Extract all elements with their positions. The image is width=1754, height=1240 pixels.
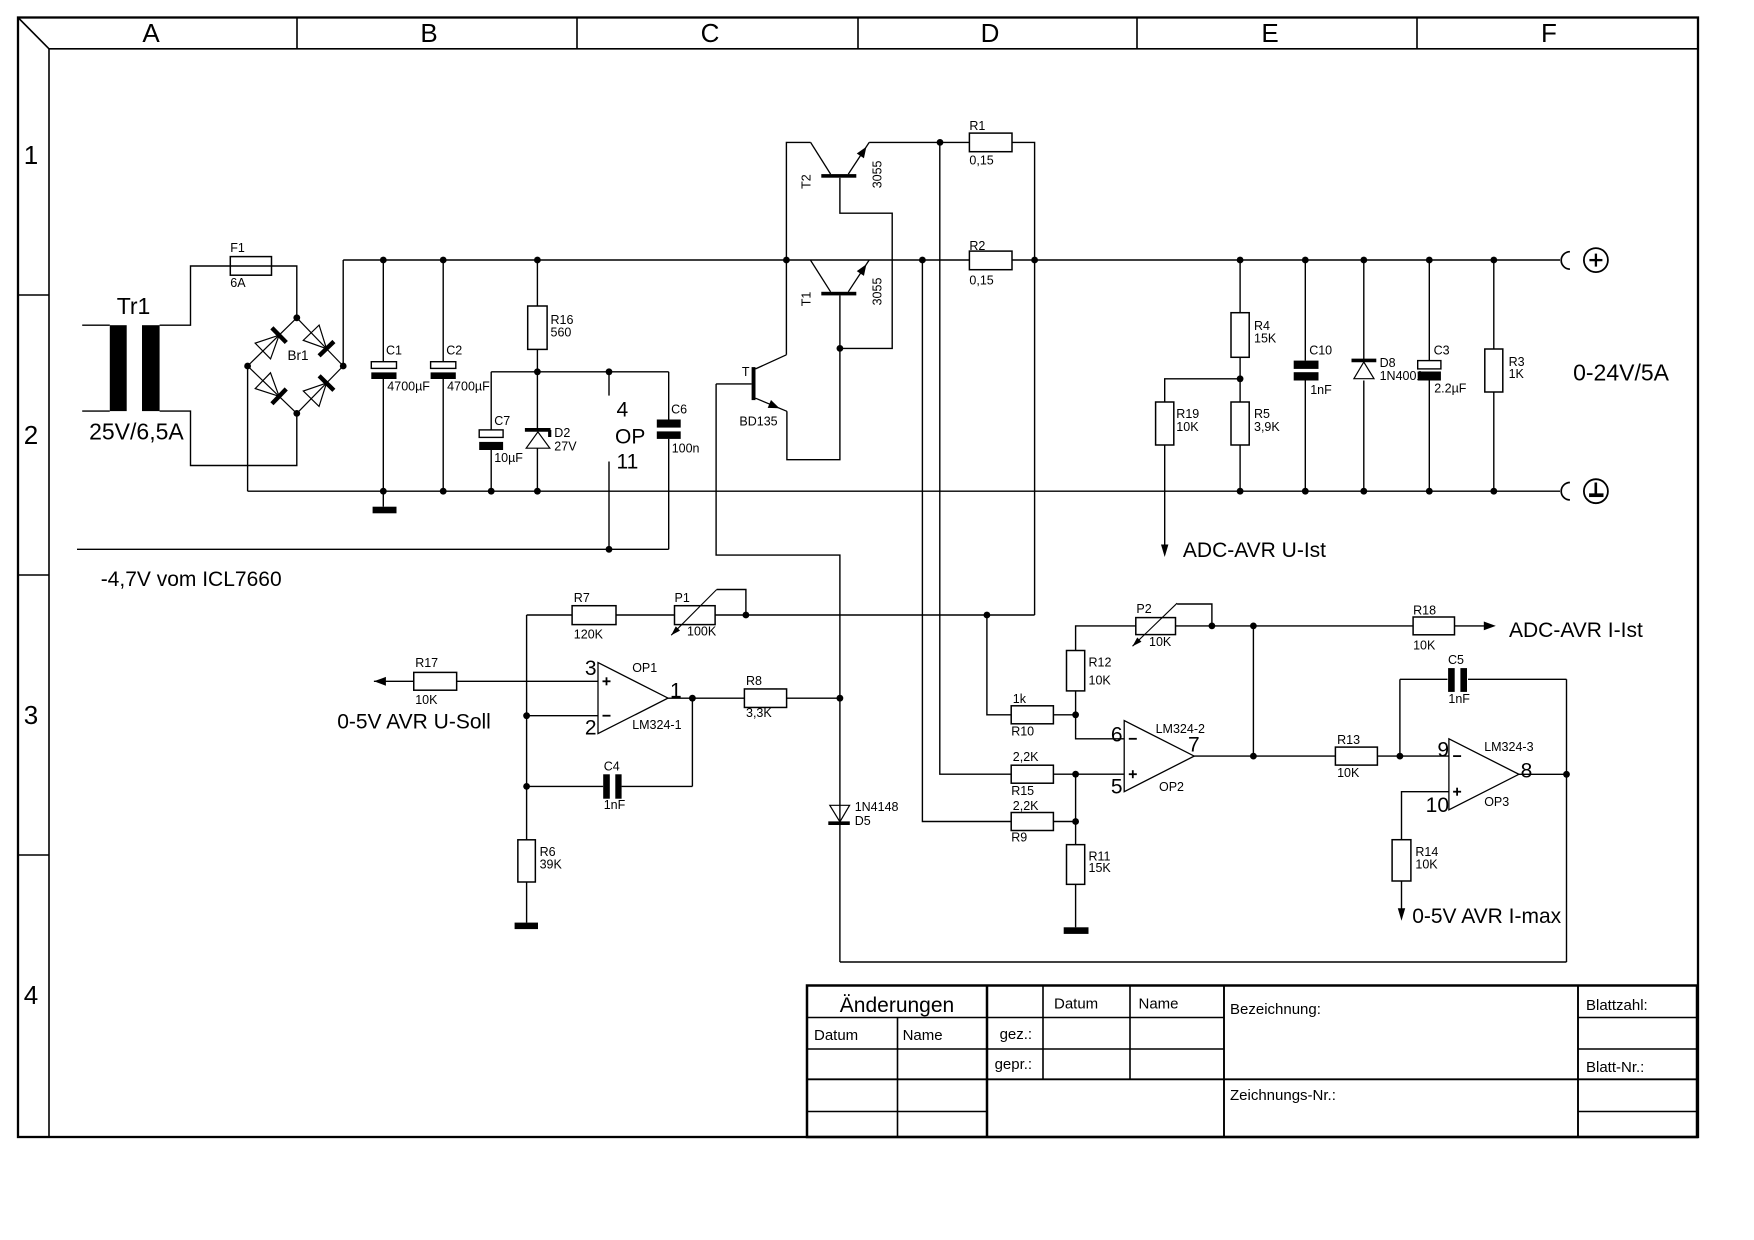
- net label 0-24V/5A: [1573, 359, 1670, 385]
- svg-text:C2: C2: [446, 343, 462, 357]
- svg-text:25V/6,5A: 25V/6,5A: [89, 418, 184, 444]
- wire: R1 to output node: [1012, 142, 1035, 615]
- svg-text:15K: 15K: [1254, 332, 1277, 346]
- svg-text:27V: 27V: [554, 440, 577, 454]
- resistor R11 15K: [1067, 845, 1112, 928]
- svg-text:10K: 10K: [415, 693, 438, 707]
- svg-text:1nF: 1nF: [1448, 692, 1470, 706]
- svg-text:-4,7V vom ICL7660: -4,7V vom ICL7660: [101, 568, 282, 591]
- wire: base node to BD135 emitter: [787, 348, 840, 459]
- svg-text:100n: 100n: [672, 442, 700, 456]
- svg-text:6A: 6A: [230, 276, 246, 290]
- zener diode D2 27V: [525, 372, 577, 491]
- wire: OP2 plus divider chain: [1075, 774, 1077, 844]
- op-amp OP3 LM324-3: [1426, 739, 1534, 818]
- svg-text:39K: 39K: [540, 858, 563, 872]
- svg-text:R17: R17: [415, 656, 438, 670]
- svg-text:T1: T1: [800, 292, 814, 307]
- svg-text:9: 9: [1437, 739, 1449, 762]
- capacitor C3 2.2uF: [1418, 260, 1467, 491]
- wire: fuse to bridge top node: [272, 266, 297, 318]
- wire: OP1 output: [668, 695, 744, 702]
- wire: R8 to D5 node: [787, 695, 844, 702]
- svg-text:10K: 10K: [1089, 674, 1112, 688]
- wire: U-Soll feedback line: [527, 612, 1035, 619]
- svg-text:15K: 15K: [1089, 861, 1112, 875]
- svg-text:D8: D8: [1380, 356, 1396, 370]
- resistor R4 15K: [1231, 260, 1277, 382]
- svg-text:R10: R10: [1011, 725, 1034, 739]
- wire: primary leads: [82, 325, 110, 411]
- svg-text:2.2µF: 2.2µF: [1434, 382, 1467, 396]
- wire: BD135 base to OP1 output node: [716, 384, 840, 698]
- svg-text:1nF: 1nF: [604, 798, 626, 812]
- capacitor C10 1nF: [1294, 260, 1332, 491]
- wire: OP3 output loop (bottom): [840, 679, 1567, 962]
- wire: -4,7V rail: [77, 546, 669, 591]
- svg-text:1N4148: 1N4148: [855, 800, 899, 814]
- resistor R16 560: [528, 260, 574, 372]
- svg-text:10: 10: [1426, 794, 1449, 817]
- wire: current sense tap (output side): [922, 260, 1011, 822]
- wire: ADC-AVR I-Ist arrow: [1455, 619, 1643, 642]
- svg-text:1K: 1K: [1509, 367, 1525, 381]
- resistor R8 3,3K: [744, 674, 786, 720]
- svg-text:4: 4: [24, 980, 38, 1010]
- svg-text:560: 560: [551, 326, 572, 340]
- svg-text:3,9K: 3,9K: [1254, 420, 1280, 434]
- svg-text:R9: R9: [1011, 830, 1027, 844]
- wire: U-Soll input arrow: [337, 677, 491, 734]
- capacitor C7 10uF: [479, 372, 523, 491]
- svg-text:OP: OP: [615, 425, 645, 448]
- svg-text:OP2: OP2: [1159, 780, 1184, 794]
- svg-text:Bezeichnung:: Bezeichnung:: [1230, 1001, 1321, 1018]
- resistor R14 10K: [1392, 840, 1438, 909]
- svg-text:1nF: 1nF: [1310, 383, 1332, 397]
- svg-text:0-24V/5A: 0-24V/5A: [1573, 359, 1670, 385]
- resistor R17 10K: [414, 656, 457, 707]
- svg-text:R12: R12: [1089, 656, 1112, 670]
- wire: T2 collector to rail: [786, 142, 810, 354]
- svg-text:2,2K: 2,2K: [1013, 799, 1039, 813]
- svg-text:gez.:: gez.:: [1000, 1026, 1033, 1043]
- svg-text:R1: R1: [969, 119, 985, 133]
- svg-text:7: 7: [1188, 734, 1200, 757]
- svg-text:1k: 1k: [1013, 692, 1027, 706]
- svg-text:10K: 10K: [1337, 766, 1360, 780]
- svg-text:Blattzahl:: Blattzahl:: [1586, 997, 1648, 1014]
- resistor R9 2,2K: [1011, 799, 1079, 845]
- svg-text:Änderungen: Änderungen: [840, 994, 954, 1017]
- resistor R10 1k: [987, 615, 1079, 739]
- svg-text:Datum: Datum: [1054, 996, 1098, 1013]
- wire: R10/R12 node to OP2 pin 6: [1076, 715, 1125, 739]
- svg-text:2: 2: [585, 717, 597, 740]
- resistor R18 10K: [1413, 603, 1454, 652]
- svg-text:10K: 10K: [1415, 857, 1438, 871]
- wire: secondary top to fuse: [160, 266, 231, 325]
- resistor R6 39K: [518, 840, 563, 923]
- svg-text:C5: C5: [1448, 653, 1464, 667]
- svg-text:Br1: Br1: [288, 348, 309, 363]
- svg-text:2: 2: [24, 420, 38, 450]
- svg-text:1: 1: [24, 140, 38, 170]
- svg-text:1N4001: 1N4001: [1380, 369, 1424, 383]
- svg-text:Zeichnungs-Nr.:: Zeichnungs-Nr.:: [1230, 1087, 1336, 1104]
- ground (below R11): [1064, 927, 1089, 934]
- svg-text:LM324-2: LM324-2: [1156, 722, 1205, 736]
- resistor R19 10K: [1156, 379, 1241, 546]
- wire: aux supply node (R16 bottom): [491, 368, 669, 375]
- svg-text:3055: 3055: [870, 160, 884, 188]
- transistor T2 (2N3055): [800, 142, 885, 189]
- svg-text:0,15: 0,15: [969, 154, 993, 168]
- ground (below R6): [515, 923, 538, 930]
- svg-text:C10: C10: [1309, 344, 1332, 358]
- transistor T1 (2N3055): [800, 260, 885, 306]
- wire: ADC-AVR U-Ist arrow: [1161, 539, 1326, 562]
- wire: current sense tap (emitter side): [940, 142, 1011, 774]
- op-amp OP1 LM324-1: [585, 657, 682, 740]
- transformer Tr1: [89, 293, 184, 445]
- fuse F1 6A: [230, 241, 271, 290]
- capacitor C2 4700uF: [431, 260, 491, 491]
- capacitor C5 1nF: [1400, 653, 1567, 756]
- resistor R13 10K: [1335, 733, 1377, 780]
- svg-text:4: 4: [617, 399, 629, 422]
- svg-text:10K: 10K: [1149, 635, 1172, 649]
- wire: bridge minus to ground rail: [247, 366, 249, 491]
- svg-text:3,3K: 3,3K: [746, 706, 772, 720]
- svg-text:D5: D5: [855, 814, 871, 828]
- diode D8 1N4001: [1352, 260, 1424, 491]
- svg-text:D2: D2: [554, 426, 570, 440]
- svg-text:1: 1: [670, 680, 682, 703]
- diode D5 1N4148: [828, 698, 898, 962]
- svg-text:BD135: BD135: [739, 415, 777, 429]
- svg-text:C: C: [701, 18, 720, 48]
- op-amp power pins 4/11: [609, 372, 645, 550]
- capacitor C1 4700uF: [371, 260, 430, 491]
- wire: P2 node to R18/OP2: [1212, 623, 1413, 757]
- output terminal ground: [1561, 479, 1608, 503]
- wire: OP1 pin 2: [527, 715, 598, 717]
- svg-text:C3: C3: [1434, 344, 1450, 358]
- resistor R1 0,15: [969, 119, 1012, 168]
- wire: bridge plus to +raw rail: [342, 260, 344, 366]
- svg-text:ADC-AVR I-Ist: ADC-AVR I-Ist: [1509, 619, 1643, 642]
- svg-text:3: 3: [24, 700, 38, 730]
- svg-text:OP3: OP3: [1484, 795, 1509, 809]
- svg-text:11: 11: [617, 450, 639, 473]
- svg-text:0-5V AVR I-max: 0-5V AVR I-max: [1412, 905, 1561, 928]
- svg-text:E: E: [1261, 18, 1278, 48]
- svg-text:C1: C1: [386, 343, 402, 357]
- svg-text:10µF: 10µF: [494, 451, 523, 465]
- svg-text:T: T: [742, 365, 750, 379]
- svg-text:2,2K: 2,2K: [1013, 750, 1039, 764]
- svg-text:R18: R18: [1413, 603, 1436, 617]
- potentiometer P1 100K: [671, 590, 746, 639]
- svg-text:4700µF: 4700µF: [447, 380, 490, 394]
- svg-text:0,15: 0,15: [969, 273, 993, 287]
- resistor R15 2,2K: [1011, 750, 1124, 798]
- svg-text:F1: F1: [230, 241, 245, 255]
- svg-text:A: A: [142, 18, 160, 48]
- svg-text:Datum: Datum: [814, 1027, 858, 1044]
- svg-text:120K: 120K: [574, 628, 604, 642]
- svg-text:LM324-1: LM324-1: [632, 718, 681, 732]
- svg-text:C4: C4: [604, 759, 620, 773]
- wire: R13 to OP3 pin 9: [1377, 753, 1449, 760]
- wire: feedback bus (OP1 inverting node): [523, 615, 530, 840]
- svg-text:P1: P1: [675, 591, 690, 605]
- svg-text:6: 6: [1111, 724, 1123, 747]
- wire: +raw rail (top horizontal): [343, 257, 1560, 264]
- wire: ground rail (bottom horizontal): [248, 488, 1560, 495]
- svg-text:R2: R2: [969, 239, 985, 253]
- svg-text:ADC-AVR U-Ist: ADC-AVR U-Ist: [1183, 539, 1326, 562]
- svg-text:Tr1: Tr1: [117, 293, 151, 319]
- potentiometer P2 10K: [1133, 602, 1216, 649]
- svg-text:R15: R15: [1011, 784, 1034, 798]
- svg-text:0-5V AVR U-Soll: 0-5V AVR U-Soll: [337, 711, 491, 734]
- wire: OP3 output: [1519, 771, 1570, 778]
- svg-text:R13: R13: [1337, 733, 1360, 747]
- wire: secondary bottom to bridge bottom node: [160, 411, 297, 465]
- svg-text:C7: C7: [494, 414, 510, 428]
- resistor R3 1K: [1485, 260, 1525, 491]
- svg-text:OP1: OP1: [632, 661, 657, 675]
- capacitor C6 100n: [657, 372, 700, 550]
- svg-text:3: 3: [585, 657, 597, 680]
- transistor T BD135 (driver): [716, 355, 787, 429]
- wire: T2 base loop: [837, 178, 893, 352]
- wire: OP2 output to R13: [1194, 753, 1335, 760]
- svg-text:3055: 3055: [870, 278, 884, 306]
- svg-text:F: F: [1541, 18, 1557, 48]
- svg-text:R8: R8: [746, 674, 762, 688]
- svg-text:LM324-3: LM324-3: [1484, 740, 1533, 754]
- svg-text:Name: Name: [903, 1027, 943, 1044]
- wire: 0-5V AVR I-max arrow: [1398, 905, 1562, 928]
- wire: T1 base: [839, 295, 841, 348]
- svg-text:gepr.:: gepr.:: [995, 1056, 1033, 1073]
- ground (below filter caps): [373, 491, 397, 513]
- wire: OP3 pin 10 to R14: [1402, 792, 1449, 840]
- svg-text:B: B: [420, 18, 437, 48]
- resistor R7 120K: [572, 591, 616, 642]
- svg-text:P2: P2: [1136, 602, 1151, 616]
- svg-text:C6: C6: [671, 403, 687, 417]
- capacitor C4 1nF: [527, 698, 693, 812]
- svg-text:10K: 10K: [1176, 420, 1199, 434]
- wire: T2 emitter to R1: [869, 139, 969, 146]
- resistor R12 10K: [1067, 626, 1136, 715]
- wire: R17 to OP1 pin 3: [457, 680, 598, 682]
- svg-text:Blatt-Nr.:: Blatt-Nr.:: [1586, 1059, 1644, 1076]
- output terminal + (plus): [1561, 248, 1608, 272]
- svg-text:D: D: [981, 18, 1000, 48]
- junction: bridge nodes: [244, 314, 346, 416]
- svg-text:10K: 10K: [1413, 638, 1436, 652]
- op-amp OP2 LM324-2: [1111, 721, 1205, 799]
- bridge rectifier Br1: [248, 318, 344, 414]
- svg-text:Name: Name: [1139, 996, 1179, 1013]
- resistor R5 3,9K: [1231, 379, 1280, 491]
- resistor R2 0,15: [969, 239, 1012, 288]
- svg-text:R7: R7: [574, 591, 590, 605]
- svg-text:T2: T2: [800, 174, 814, 189]
- svg-text:4700µF: 4700µF: [387, 380, 430, 394]
- svg-text:100K: 100K: [687, 624, 717, 638]
- svg-text:8: 8: [1521, 760, 1533, 783]
- svg-text:5: 5: [1111, 776, 1123, 799]
